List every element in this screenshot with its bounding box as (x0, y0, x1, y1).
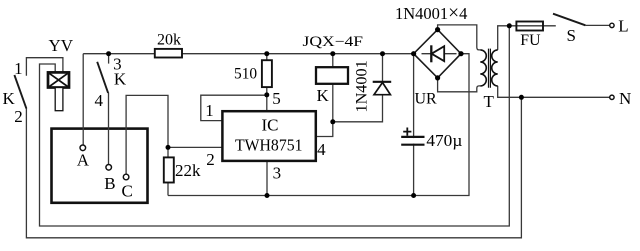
junction: N line node (519, 95, 524, 100)
switch K 1-2 blade (14, 75, 26, 109)
wire: bridge bottom to secondary bottom (438, 78, 481, 92)
junction: bridge left vertex (411, 51, 416, 56)
wire: primary top to fuse node (498, 26, 556, 50)
junction: diode node on +V rail (380, 51, 385, 56)
junction: pin5 node (264, 92, 269, 97)
wire: K contact3 stub (108, 54, 110, 64)
wire: N return rail to K contact2 (26, 97, 521, 238)
svg-text:A: A (77, 151, 90, 170)
wire: K contact1 bracket to YV (26, 58, 63, 76)
junction: bridge right vertex (458, 51, 463, 56)
svg-text:L: L (618, 16, 628, 35)
solenoid valve YV plunger (55, 88, 63, 111)
resistor 22k (164, 157, 174, 182)
wire: +V rail (83, 53, 413, 55)
terminal N circle (610, 95, 614, 99)
wire: K contact4 to electrode B (108, 93, 110, 165)
wire: L return rail to YV (40, 26, 510, 226)
junction: bridge top vertex (435, 27, 440, 32)
junction: L line node (507, 23, 512, 28)
svg-text:4: 4 (95, 91, 104, 110)
svg-text:YV: YV (49, 36, 74, 55)
svg-text:510: 510 (234, 65, 257, 82)
junction: relay/diode/pin4 node (330, 119, 335, 124)
svg-text:2: 2 (14, 107, 23, 126)
electrode B terminal (106, 165, 112, 171)
wire: IC pin1 loop (201, 95, 267, 120)
svg-text:UR: UR (415, 90, 438, 107)
svg-text:IC: IC (262, 116, 279, 135)
flyback diode 1N4001 (373, 82, 392, 95)
transformer T primary winding (492, 50, 498, 86)
wire: IC pin2 (168, 146, 222, 148)
svg-text:K: K (317, 86, 330, 105)
fuse FU (516, 22, 543, 31)
bridge rectifier inner diode (422, 45, 457, 62)
svg-text:JQX−4F: JQX−4F (303, 34, 364, 50)
svg-text:1N4001×4: 1N4001×4 (395, 3, 467, 24)
wire: capacitor branch (413, 54, 415, 196)
water tank box with electrodes (52, 129, 148, 203)
wire: switch S to L terminal (585, 24, 610, 26)
junction: bridge bottom vertex (435, 75, 440, 80)
wire: relay coil branch (332, 54, 334, 122)
junction: capacitor ground node (411, 193, 416, 198)
terminal L circle (610, 23, 614, 27)
svg-text:K: K (3, 89, 16, 108)
svg-text:TWH8751: TWH8751 (235, 135, 303, 154)
switch K 3-4 blade (97, 62, 108, 93)
junction: K3 node on +V rail (106, 51, 111, 56)
wire: IC pin4 (316, 122, 333, 137)
wire: primary bottom to N terminal (498, 86, 610, 97)
svg-text:1N4001: 1N4001 (353, 60, 371, 112)
svg-text:470µ: 470µ (426, 131, 462, 150)
svg-text:22k: 22k (175, 161, 201, 180)
svg-text:4: 4 (317, 140, 326, 159)
wire: ground rail (168, 54, 469, 196)
resistor 20k (155, 49, 182, 58)
svg-text:1: 1 (14, 59, 23, 78)
capacitor C1 470u (401, 137, 424, 145)
junction: 510 node on +V rail (264, 51, 269, 56)
svg-text:S: S (567, 26, 576, 45)
svg-text:C: C (122, 182, 133, 201)
svg-text:B: B (104, 174, 115, 193)
electrode A terminal (80, 145, 86, 151)
svg-text:T: T (484, 92, 495, 111)
transformer T core (489, 49, 491, 88)
relay coil K (JQX-4F) (316, 67, 348, 84)
svg-text:3: 3 (273, 164, 282, 183)
solenoid valve YV box (48, 72, 69, 87)
junction: relay node on +V rail (330, 51, 335, 56)
transformer T secondary winding (480, 50, 486, 86)
resistor 510 (262, 60, 272, 87)
label plus sign (403, 128, 411, 136)
svg-text:20k: 20k (157, 32, 181, 49)
wire: 510 / pin5 branch (266, 54, 268, 111)
IC U1 TWH8751 box (222, 111, 315, 161)
svg-text:FU: FU (520, 32, 541, 49)
wire: bridge top to secondary top (438, 25, 481, 50)
wire: electrode C branch to 22k node (126, 95, 168, 195)
svg-text:1: 1 (205, 101, 214, 120)
wire: electrode A branch (82, 54, 84, 145)
svg-text:K: K (114, 70, 127, 89)
bridge rectifier UR diamond (414, 30, 461, 78)
electrode C terminal (123, 174, 129, 180)
svg-text:5: 5 (272, 89, 281, 108)
svg-text:N: N (619, 89, 631, 108)
junction: pin2 / 22k node (166, 145, 171, 150)
svg-text:2: 2 (206, 150, 215, 169)
wire: flyback diode branch (333, 54, 383, 122)
junction: pin3 ground node (265, 193, 270, 198)
switch S blade (553, 14, 585, 26)
wire: IC pin3 (266, 161, 268, 196)
